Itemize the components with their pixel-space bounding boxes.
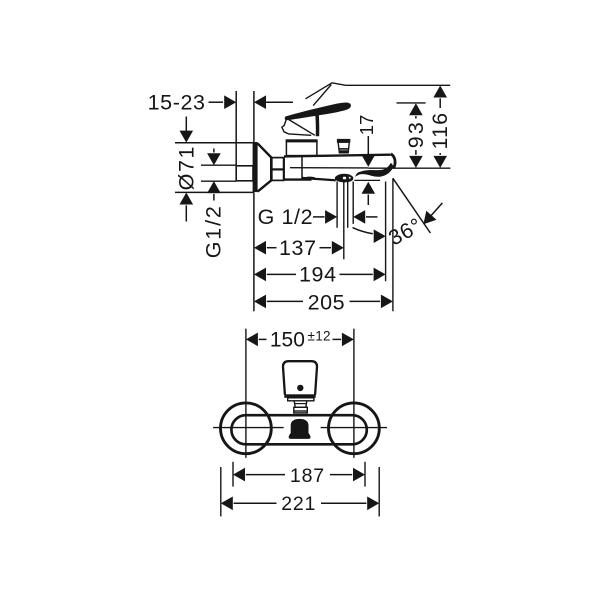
- svg-text:17: 17: [356, 115, 377, 136]
- diverter knob body: [338, 143, 349, 153]
- body left edge: [283, 157, 285, 180]
- body centerline: [290, 167, 368, 169]
- front view body capsule: [231, 415, 366, 444]
- cartridge block: [286, 141, 317, 156]
- handle lever blade: [285, 102, 351, 120]
- aerator bump: [335, 174, 353, 183]
- svg-text:150: 150: [270, 329, 305, 352]
- dim 150 row: [246, 333, 258, 347]
- Ø71 dim arrows: [185, 117, 187, 132]
- dim 187 extension lines: [232, 462, 234, 487]
- wall line: [235, 91, 237, 166]
- Ø71 top extension line: [175, 142, 258, 144]
- body bottom edge: [284, 178, 312, 180]
- dim 205 row: [254, 295, 266, 309]
- extension line flange back upper: [253, 91, 255, 143]
- svg-text:221: 221: [281, 493, 316, 515]
- svg-text:G 1/2: G 1/2: [258, 205, 314, 229]
- front view escutcheon circle right: [329, 403, 380, 454]
- spout tip extension line right: [368, 167, 450, 169]
- dim 221 extension lines: [220, 467, 222, 516]
- front view escutcheon circle left: [221, 403, 272, 454]
- dim 187 row: [233, 468, 245, 482]
- dim 15-23 line: [209, 101, 224, 103]
- aerator bottom extension line: [354, 179, 380, 181]
- dim 17: [367, 136, 369, 154]
- body joint line: [301, 157, 303, 180]
- extension line flange back lower: [253, 192, 255, 311]
- center tick left: [213, 427, 284, 429]
- Ø71 bottom extension line: [175, 191, 254, 193]
- svg-text:15-23: 15-23: [148, 91, 206, 115]
- flange back plate: [253, 143, 258, 192]
- dim G1/2 mid row: [313, 216, 325, 218]
- svg-text:G1/2: G1/2: [201, 204, 225, 258]
- dim 93: [409, 103, 423, 115]
- center vertical line right: [353, 329, 355, 458]
- front neck collar: [288, 398, 314, 401]
- center vertical line left: [245, 329, 247, 458]
- dim 194 row: [254, 268, 266, 282]
- front handle outline: [283, 361, 317, 395]
- flange cone: [258, 143, 272, 191]
- svg-text:Ø71: Ø71: [174, 145, 198, 190]
- handle base outline: [282, 118, 311, 136]
- wall nipple G1/2: [236, 166, 253, 181]
- lever tip extension stub: [397, 102, 426, 104]
- handle neck: [315, 111, 319, 136]
- dim 116: [433, 86, 447, 98]
- svg-text:187: 187: [290, 465, 325, 487]
- svg-text:116: 116: [428, 112, 452, 150]
- svg-text:±12: ±12: [308, 329, 331, 344]
- left G1/2 extension lines: [201, 164, 236, 166]
- center tick right: [321, 427, 387, 429]
- underside bump: [304, 177, 315, 179]
- spout end crescent band: [355, 163, 393, 177]
- body top edge: [284, 155, 391, 157]
- extension line 205: [392, 178, 394, 311]
- 36 degree leader arrow: [428, 203, 443, 220]
- svg-text:205: 205: [308, 291, 346, 315]
- handle base diagonal: [288, 119, 315, 135]
- front handle bottom bar: [284, 394, 315, 398]
- spout underside line: [302, 178, 336, 180]
- spout end cap: [391, 154, 395, 168]
- cartridge block top bar: [286, 139, 318, 142]
- front handle dot: [297, 385, 303, 391]
- handle top extension line: [346, 84, 451, 86]
- extension line 194: [385, 182, 387, 282]
- dim 221 row: [221, 497, 233, 511]
- svg-text:93: 93: [404, 120, 428, 148]
- dim 137 row: [254, 241, 266, 255]
- svg-text:194: 194: [299, 263, 337, 287]
- connection nut: [272, 158, 284, 181]
- svg-text:137: 137: [279, 236, 317, 260]
- outlet extension lines: [336, 182, 338, 228]
- 36 degree slant line: [393, 178, 431, 233]
- 36 degree arc tail and arrow: [353, 228, 373, 234]
- left G1/2 arrows: [213, 149, 215, 153]
- front diverter knob: [289, 419, 311, 439]
- handle apex thin lines: [306, 83, 346, 99]
- diverter knob cap: [337, 139, 350, 143]
